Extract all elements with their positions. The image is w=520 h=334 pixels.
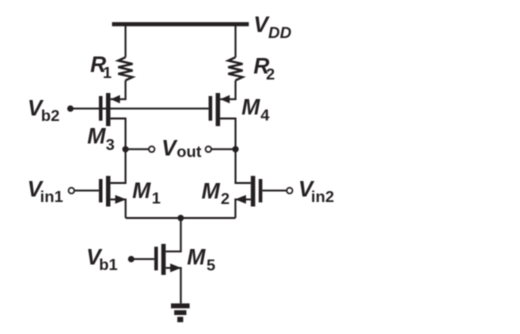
label M2 [202,179,230,209]
resistor R2 [228,57,242,80]
transistor M2 (NMOS) [235,176,262,207]
svg-text:1: 1 [152,191,161,208]
transistor M1 (NMOS) [99,176,126,207]
svg-text:M: M [132,178,151,203]
svg-text:M: M [202,179,221,204]
label M5 [187,245,216,275]
Vout right open terminal [206,146,212,152]
label M4 [242,95,270,125]
svg-text:in1: in1 [40,189,63,206]
wire Vout right terminal to node Y [211,148,235,150]
wire M4 drain to node Y (right output node) [220,119,235,150]
svg-text:3: 3 [106,137,115,154]
Vout left open terminal [149,146,155,152]
wire R1 to M3 source [110,80,125,99]
wire M5 source to ground [166,268,181,304]
svg-text:b1: b1 [99,257,118,274]
svg-text:2: 2 [221,191,230,208]
wire M2 gate to Vin2 terminal [262,190,286,192]
wire node Y to M2 drain [236,149,251,183]
tail node junction dot [178,215,184,221]
svg-text:b2: b2 [41,108,60,125]
resistor R1 [118,57,132,80]
svg-text:in2: in2 [311,189,334,206]
wire node X to M1 drain [110,149,125,183]
wire M3 drain to node X (left output node) [110,119,125,150]
label Vout [162,135,203,161]
label M3 [87,124,115,154]
wire tail row (M1 source to M2 source) [126,217,236,219]
svg-text:out: out [177,144,203,161]
wire VDD rail to R2 [235,26,237,57]
svg-text:M: M [242,95,261,120]
label R1 [90,52,112,82]
label VDD [254,12,292,42]
wire R2 to M4 source [220,80,235,99]
wire VDD rail to R1 [125,26,127,57]
Vb2 terminal dot [67,105,73,111]
svg-text:1: 1 [103,65,112,82]
svg-text:DD: DD [268,25,292,42]
transistor M3 (PMOS) [99,93,120,126]
wire node X to Vout left terminal [126,148,149,150]
wire Vb1 terminal to M5 gate [131,258,154,260]
wire M1 source to tail node row [110,199,125,218]
svg-text:M: M [187,245,206,270]
label Vin2 [298,177,334,207]
label M1 [132,178,161,208]
svg-text:M: M [87,124,106,149]
svg-text:2: 2 [266,66,275,83]
node Y junction dot (right Vout node) [232,146,238,152]
power rail VDD [112,22,249,26]
wire M2 source to tail node row [235,199,250,218]
label R2 [254,53,276,83]
label Vb2 [28,96,60,126]
svg-text:5: 5 [207,257,216,274]
wire gate bus Vb2 to M3 and M4 gates [70,108,208,110]
Vin1 open terminal [69,188,75,194]
transistor M5 (NMOS tail current source) [154,244,181,275]
label Vb1 [86,245,117,275]
wire Vin1 terminal to M1 gate [74,190,99,192]
transistor M4 (PMOS) [209,93,230,126]
Vb1 terminal dot [128,256,134,262]
node X junction dot (left Vout node) [122,146,128,152]
svg-text:4: 4 [261,108,270,125]
Vin2 open terminal [287,188,293,194]
wire tail node to M5 drain [166,218,181,251]
ground symbol [171,303,190,322]
label Vin1 [27,177,63,207]
